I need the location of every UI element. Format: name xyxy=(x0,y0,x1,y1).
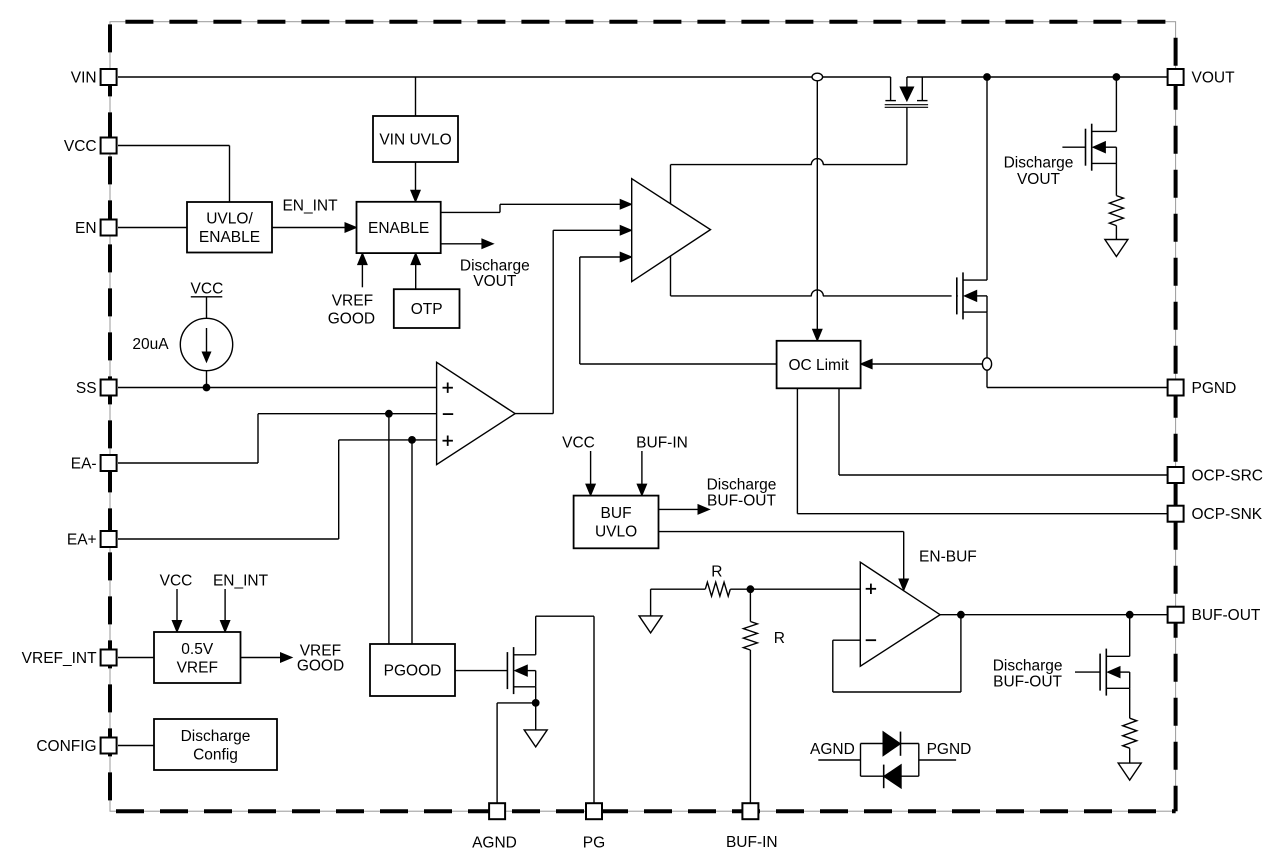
svg-text:R: R xyxy=(774,630,785,647)
svg-text:EN_INT: EN_INT xyxy=(282,198,338,215)
svg-text:Discharge: Discharge xyxy=(707,477,777,494)
svg-text:VIN: VIN xyxy=(71,70,97,87)
svg-text:SS: SS xyxy=(76,380,97,397)
svg-text:EN-BUF: EN-BUF xyxy=(919,549,977,566)
svg-text:BUF: BUF xyxy=(601,505,632,522)
svg-text:PGND: PGND xyxy=(1192,380,1237,397)
svg-text:PG: PG xyxy=(583,835,605,852)
svg-text:EA+: EA+ xyxy=(67,532,97,549)
svg-text:VIN UVLO: VIN UVLO xyxy=(379,132,451,149)
svg-text:EA-: EA- xyxy=(71,456,97,473)
svg-text:ENABLE: ENABLE xyxy=(199,229,260,246)
svg-text:20uA: 20uA xyxy=(132,336,169,353)
svg-text:OC Limit: OC Limit xyxy=(788,357,849,374)
svg-text:VOUT: VOUT xyxy=(473,273,517,290)
svg-text:VCC: VCC xyxy=(191,281,224,298)
svg-text:Config: Config xyxy=(193,746,238,763)
svg-text:0.5V: 0.5V xyxy=(181,641,214,658)
svg-text:OCP-SNK: OCP-SNK xyxy=(1192,506,1263,523)
svg-text:BUF-OUT: BUF-OUT xyxy=(993,674,1062,691)
svg-text:VOUT: VOUT xyxy=(1017,171,1061,188)
svg-text:PGND: PGND xyxy=(927,741,972,758)
svg-text:Discharge: Discharge xyxy=(181,728,251,745)
svg-text:GOOD: GOOD xyxy=(328,310,375,327)
svg-text:VREF: VREF xyxy=(332,293,373,310)
svg-text:CONFIG: CONFIG xyxy=(36,738,96,755)
svg-text:Discharge: Discharge xyxy=(993,658,1063,675)
svg-text:BUF-OUT: BUF-OUT xyxy=(707,493,776,510)
svg-text:EN: EN xyxy=(75,220,97,237)
svg-text:BUF-IN: BUF-IN xyxy=(726,834,778,851)
svg-text:R: R xyxy=(711,564,722,581)
svg-text:AGND: AGND xyxy=(810,741,855,758)
svg-text:UVLO/: UVLO/ xyxy=(206,211,253,228)
svg-text:BUF-IN: BUF-IN xyxy=(636,435,688,452)
svg-text:BUF-OUT: BUF-OUT xyxy=(1192,607,1261,624)
svg-text:VCC: VCC xyxy=(160,573,193,590)
svg-text:EN_INT: EN_INT xyxy=(213,573,269,590)
svg-text:OTP: OTP xyxy=(411,301,443,318)
svg-text:PGOOD: PGOOD xyxy=(384,663,442,680)
svg-text:GOOD: GOOD xyxy=(297,658,344,675)
svg-text:UVLO: UVLO xyxy=(595,524,637,541)
svg-text:Discharge: Discharge xyxy=(1004,154,1074,171)
svg-text:AGND: AGND xyxy=(472,835,517,852)
svg-text:VREF_INT: VREF_INT xyxy=(22,650,97,667)
svg-text:VREF: VREF xyxy=(177,659,218,676)
svg-text:OCP-SRC: OCP-SRC xyxy=(1192,468,1263,485)
svg-text:VCC: VCC xyxy=(562,435,595,452)
svg-text:ENABLE: ENABLE xyxy=(368,220,429,237)
svg-text:VCC: VCC xyxy=(64,138,97,155)
svg-text:VOUT: VOUT xyxy=(1192,70,1236,87)
